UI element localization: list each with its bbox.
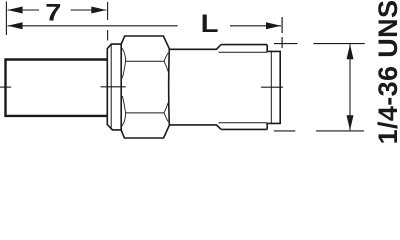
thread dia ext line bottom seg1 <box>274 130 296 132</box>
dim 7 right arrowhead <box>91 7 106 14</box>
centerline tick flange <box>101 86 126 88</box>
svg-text:7: 7 <box>45 0 61 26</box>
thread dia dim line <box>349 44 351 130</box>
hex nut outline <box>121 36 169 138</box>
centerline tick left <box>0 86 11 88</box>
dim 7 right extension line solid <box>107 2 109 20</box>
dim 7 line left segment <box>8 9 39 11</box>
dim 7 right extension dash <box>107 30 109 41</box>
thread dia ext line bottom seg2 <box>316 130 364 132</box>
svg-text:1/4-36 UNS: 1/4-36 UNS <box>373 0 400 143</box>
hex left corner chamfer arcs <box>122 48 126 126</box>
thread crest bottom edge <box>221 128 267 130</box>
thread dia top arrowhead <box>347 44 354 59</box>
thread minor diameter line top <box>219 51 268 53</box>
dim 7 left arrowhead <box>8 7 23 14</box>
shank bottom edge <box>169 125 221 129</box>
end face chamfer inner line <box>270 51 272 123</box>
dim L right arrowhead <box>266 22 281 29</box>
thread dia ext line top seg1 <box>274 43 298 45</box>
hex right corner chamfer arcs <box>164 53 168 122</box>
dim L right extension dashed <box>281 17 283 33</box>
thread minor diameter line bottom <box>219 122 268 124</box>
dim 7 left extension line <box>5 2 7 36</box>
dim 7 line right segment <box>71 9 107 11</box>
flange chamfer inner line <box>110 44 112 130</box>
centerline tick right <box>261 86 283 88</box>
dim L line right segment <box>230 25 281 27</box>
thread dia bottom arrowhead <box>347 115 354 130</box>
thread crest top edge <box>221 44 267 46</box>
svg-text:L: L <box>201 9 219 38</box>
thread end step <box>267 45 280 130</box>
dim L left arrowhead <box>8 22 23 29</box>
dim L line left segment <box>8 25 178 27</box>
thread dia ext line top seg2 <box>314 43 365 45</box>
cable barrel (left body) <box>6 60 108 116</box>
hex lower flat boundary <box>126 112 164 114</box>
hex upper flat boundary <box>126 60 164 62</box>
flange (washer with chamfered corners) <box>107 44 121 130</box>
shank top edge <box>169 45 221 50</box>
